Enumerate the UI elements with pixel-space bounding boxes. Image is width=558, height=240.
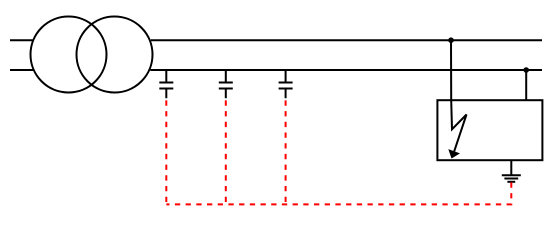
wire drop from bottom conductor to arrester box — [525, 70, 527, 100]
lightning surge arrowhead — [448, 149, 460, 158]
wire top-left lead into T1 — [10, 39, 33, 41]
wire bottom-left lead into T1 — [10, 69, 33, 71]
lightning surge arrow zigzag inside U1 — [451, 100, 466, 151]
surge arrester box U1 — [437, 100, 542, 160]
capacitor C2 — [219, 70, 233, 98]
transformer T1 secondary winding circle — [77, 17, 153, 93]
wire bottom conductor — [150, 69, 542, 71]
capacitor C3 — [279, 70, 293, 98]
wire top conductor — [151, 39, 542, 41]
node junction dot on bottom conductor — [523, 67, 529, 73]
wire red dashed earth return bottom run and riser to ground — [166, 182, 511, 204]
node junction dot on top conductor — [448, 37, 454, 43]
capacitor C1 — [159, 70, 173, 98]
wire red dashed earth return from C2 — [225, 100, 227, 204]
wire red dashed earth return from C3 — [285, 100, 287, 204]
ground — [502, 160, 521, 182]
wire red dashed earth return from C1 — [165, 100, 167, 204]
transformer T1 primary winding circle — [31, 17, 107, 93]
wire drop from top conductor into arrester box — [450, 40, 452, 101]
